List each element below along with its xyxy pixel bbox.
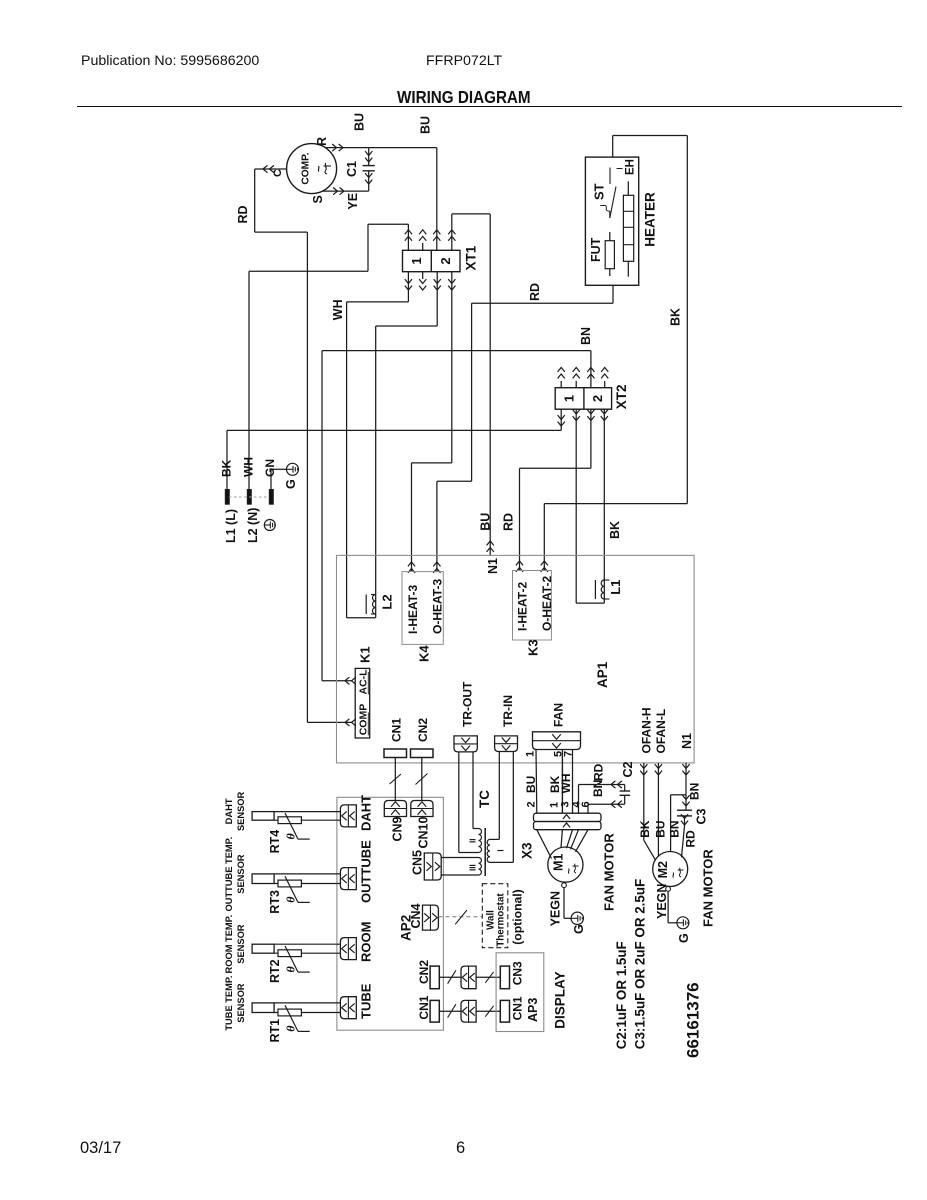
- svg-text:FAN MOTOR: FAN MOTOR: [701, 849, 716, 927]
- svg-text:SENSOR: SENSOR: [236, 983, 246, 1023]
- svg-text:BN: BN: [579, 327, 593, 345]
- svg-text:1: 1: [525, 751, 537, 757]
- svg-text:CN5: CN5: [411, 850, 425, 875]
- svg-text:ROOM: ROOM: [359, 922, 374, 962]
- svg-text:BN: BN: [688, 783, 702, 800]
- svg-text:BU: BU: [419, 116, 433, 134]
- svg-text:II: II: [469, 839, 478, 843]
- svg-text:RT4: RT4: [268, 830, 282, 854]
- svg-text:XT1: XT1: [463, 245, 478, 270]
- svg-text:BU: BU: [353, 113, 367, 131]
- svg-text:Thermostat: Thermostat: [496, 893, 507, 947]
- svg-text:CN1: CN1: [417, 995, 431, 1019]
- svg-text:DISPLAY: DISPLAY: [553, 971, 568, 1028]
- svg-text:C1: C1: [345, 161, 359, 177]
- svg-text:III: III: [469, 864, 478, 871]
- svg-text:L1 (L): L1 (L): [224, 509, 238, 543]
- svg-text:G: G: [284, 479, 298, 489]
- svg-text:N1: N1: [486, 558, 500, 574]
- svg-text:BU: BU: [479, 513, 493, 531]
- svg-text:BK: BK: [220, 459, 234, 477]
- svg-text:CN3: CN3: [511, 961, 525, 985]
- svg-text:RD: RD: [528, 283, 542, 301]
- svg-text:ROOM TEMP.: ROOM TEMP.: [224, 915, 234, 974]
- svg-text:CN1: CN1: [390, 718, 404, 742]
- svg-text:1: 1: [409, 257, 424, 264]
- svg-text:O-HEAT-3: O-HEAT-3: [431, 579, 445, 634]
- svg-text:I-HEAT-2: I-HEAT-2: [516, 582, 530, 631]
- svg-text:O-HEAT-2: O-HEAT-2: [540, 576, 554, 631]
- svg-text:COMP: COMP: [358, 704, 370, 736]
- svg-text:OFAN-L: OFAN-L: [654, 709, 668, 754]
- svg-text:WH: WH: [559, 774, 573, 794]
- svg-text:R: R: [315, 137, 329, 146]
- svg-text:RT1: RT1: [268, 1019, 282, 1043]
- svg-text:CN1: CN1: [511, 996, 525, 1020]
- svg-text:K4: K4: [417, 645, 432, 662]
- svg-text:θ: θ: [284, 833, 298, 840]
- svg-text:CN4: CN4: [409, 903, 423, 928]
- svg-text:FAN: FAN: [552, 703, 566, 727]
- svg-text:TUBE: TUBE: [359, 983, 374, 1019]
- svg-text:2: 2: [438, 257, 453, 264]
- svg-text:BK: BK: [608, 521, 622, 539]
- svg-text:G: G: [572, 924, 586, 934]
- svg-text:RD: RD: [236, 205, 250, 223]
- svg-text:G: G: [677, 933, 691, 943]
- svg-text:RT3: RT3: [268, 890, 282, 914]
- svg-text:θ: θ: [284, 896, 298, 903]
- svg-text:XT2: XT2: [614, 384, 629, 409]
- svg-text:RD: RD: [592, 763, 606, 781]
- svg-text:DAHT: DAHT: [224, 798, 234, 824]
- svg-text:CN2: CN2: [416, 718, 430, 742]
- svg-text:K3: K3: [526, 639, 541, 656]
- svg-text:FAN MOTOR: FAN MOTOR: [602, 833, 617, 911]
- svg-text:2: 2: [526, 801, 538, 807]
- svg-text:YE: YE: [346, 193, 360, 210]
- svg-text:AP3: AP3: [526, 998, 540, 1022]
- svg-text:S: S: [311, 195, 325, 203]
- svg-text:TUBE TEMP.: TUBE TEMP.: [224, 976, 234, 1031]
- svg-text:WH: WH: [242, 457, 256, 477]
- svg-text:RD: RD: [684, 830, 698, 848]
- svg-text:BK: BK: [669, 308, 683, 326]
- svg-text:θ: θ: [284, 1025, 298, 1032]
- svg-text:AP1: AP1: [595, 661, 610, 688]
- svg-text:WH: WH: [331, 299, 345, 320]
- svg-text:N1: N1: [680, 733, 694, 749]
- svg-text:K1: K1: [358, 646, 373, 663]
- svg-text:~: ~: [564, 868, 575, 874]
- svg-text:C: C: [272, 169, 284, 177]
- svg-text:FUT: FUT: [589, 237, 603, 262]
- svg-text:C3:1.5uF OR 2uF OR 2.5uF: C3:1.5uF OR 2uF OR 2.5uF: [633, 879, 648, 1049]
- svg-text:1: 1: [562, 395, 577, 402]
- svg-text:C3: C3: [695, 808, 709, 824]
- svg-text:C2:1uF OR 1.5uF: C2:1uF OR 1.5uF: [614, 941, 629, 1049]
- svg-text:SENSOR: SENSOR: [236, 924, 246, 964]
- svg-text:TR-OUT: TR-OUT: [461, 681, 475, 727]
- svg-text:CN2: CN2: [417, 960, 431, 984]
- svg-text:I-HEAT-3: I-HEAT-3: [406, 585, 420, 634]
- svg-text:RD: RD: [502, 513, 516, 531]
- svg-text:2: 2: [590, 395, 605, 402]
- svg-text:BN: BN: [591, 780, 605, 797]
- svg-text:L2: L2: [380, 594, 395, 609]
- svg-text:COMP.: COMP.: [301, 152, 312, 184]
- svg-text:YEGN: YEGN: [549, 891, 563, 926]
- svg-text:SENSOR: SENSOR: [236, 791, 246, 831]
- svg-text:HEATER: HEATER: [643, 192, 658, 247]
- svg-text:θ: θ: [284, 966, 298, 973]
- svg-text:L2 (N): L2 (N): [246, 508, 260, 543]
- svg-text:SENSOR: SENSOR: [236, 854, 246, 894]
- svg-text:66161376: 66161376: [684, 982, 703, 1058]
- svg-text:GN: GN: [263, 459, 277, 477]
- svg-text:~: ~: [669, 872, 680, 878]
- svg-text:C2: C2: [621, 761, 635, 777]
- svg-text:RT2: RT2: [268, 959, 282, 983]
- svg-text:CN10: CN10: [417, 816, 431, 848]
- svg-text:CN9: CN9: [391, 816, 405, 841]
- svg-text:ST: ST: [592, 183, 607, 200]
- svg-text:X3: X3: [520, 842, 535, 859]
- svg-text:BK: BK: [638, 820, 652, 838]
- svg-text:OUTTUBE TEMP.: OUTTUBE TEMP.: [224, 837, 234, 912]
- svg-text:YEGN: YEGN: [655, 884, 669, 919]
- svg-text:L1: L1: [608, 580, 623, 595]
- svg-text:I: I: [497, 849, 506, 851]
- svg-text:EH: EH: [625, 159, 637, 175]
- svg-text:OUTTUBE: OUTTUBE: [359, 840, 374, 903]
- svg-text:OFAN-H: OFAN-H: [640, 708, 654, 754]
- svg-text:DAHT: DAHT: [359, 795, 374, 831]
- svg-text:AC-L: AC-L: [358, 669, 370, 695]
- svg-text:(optional): (optional): [511, 889, 525, 945]
- svg-text:TR-IN: TR-IN: [501, 695, 515, 727]
- svg-text:BU: BU: [654, 820, 668, 837]
- svg-text:BN: BN: [667, 820, 681, 837]
- svg-text:TC: TC: [477, 790, 492, 808]
- svg-text:BU: BU: [524, 776, 538, 793]
